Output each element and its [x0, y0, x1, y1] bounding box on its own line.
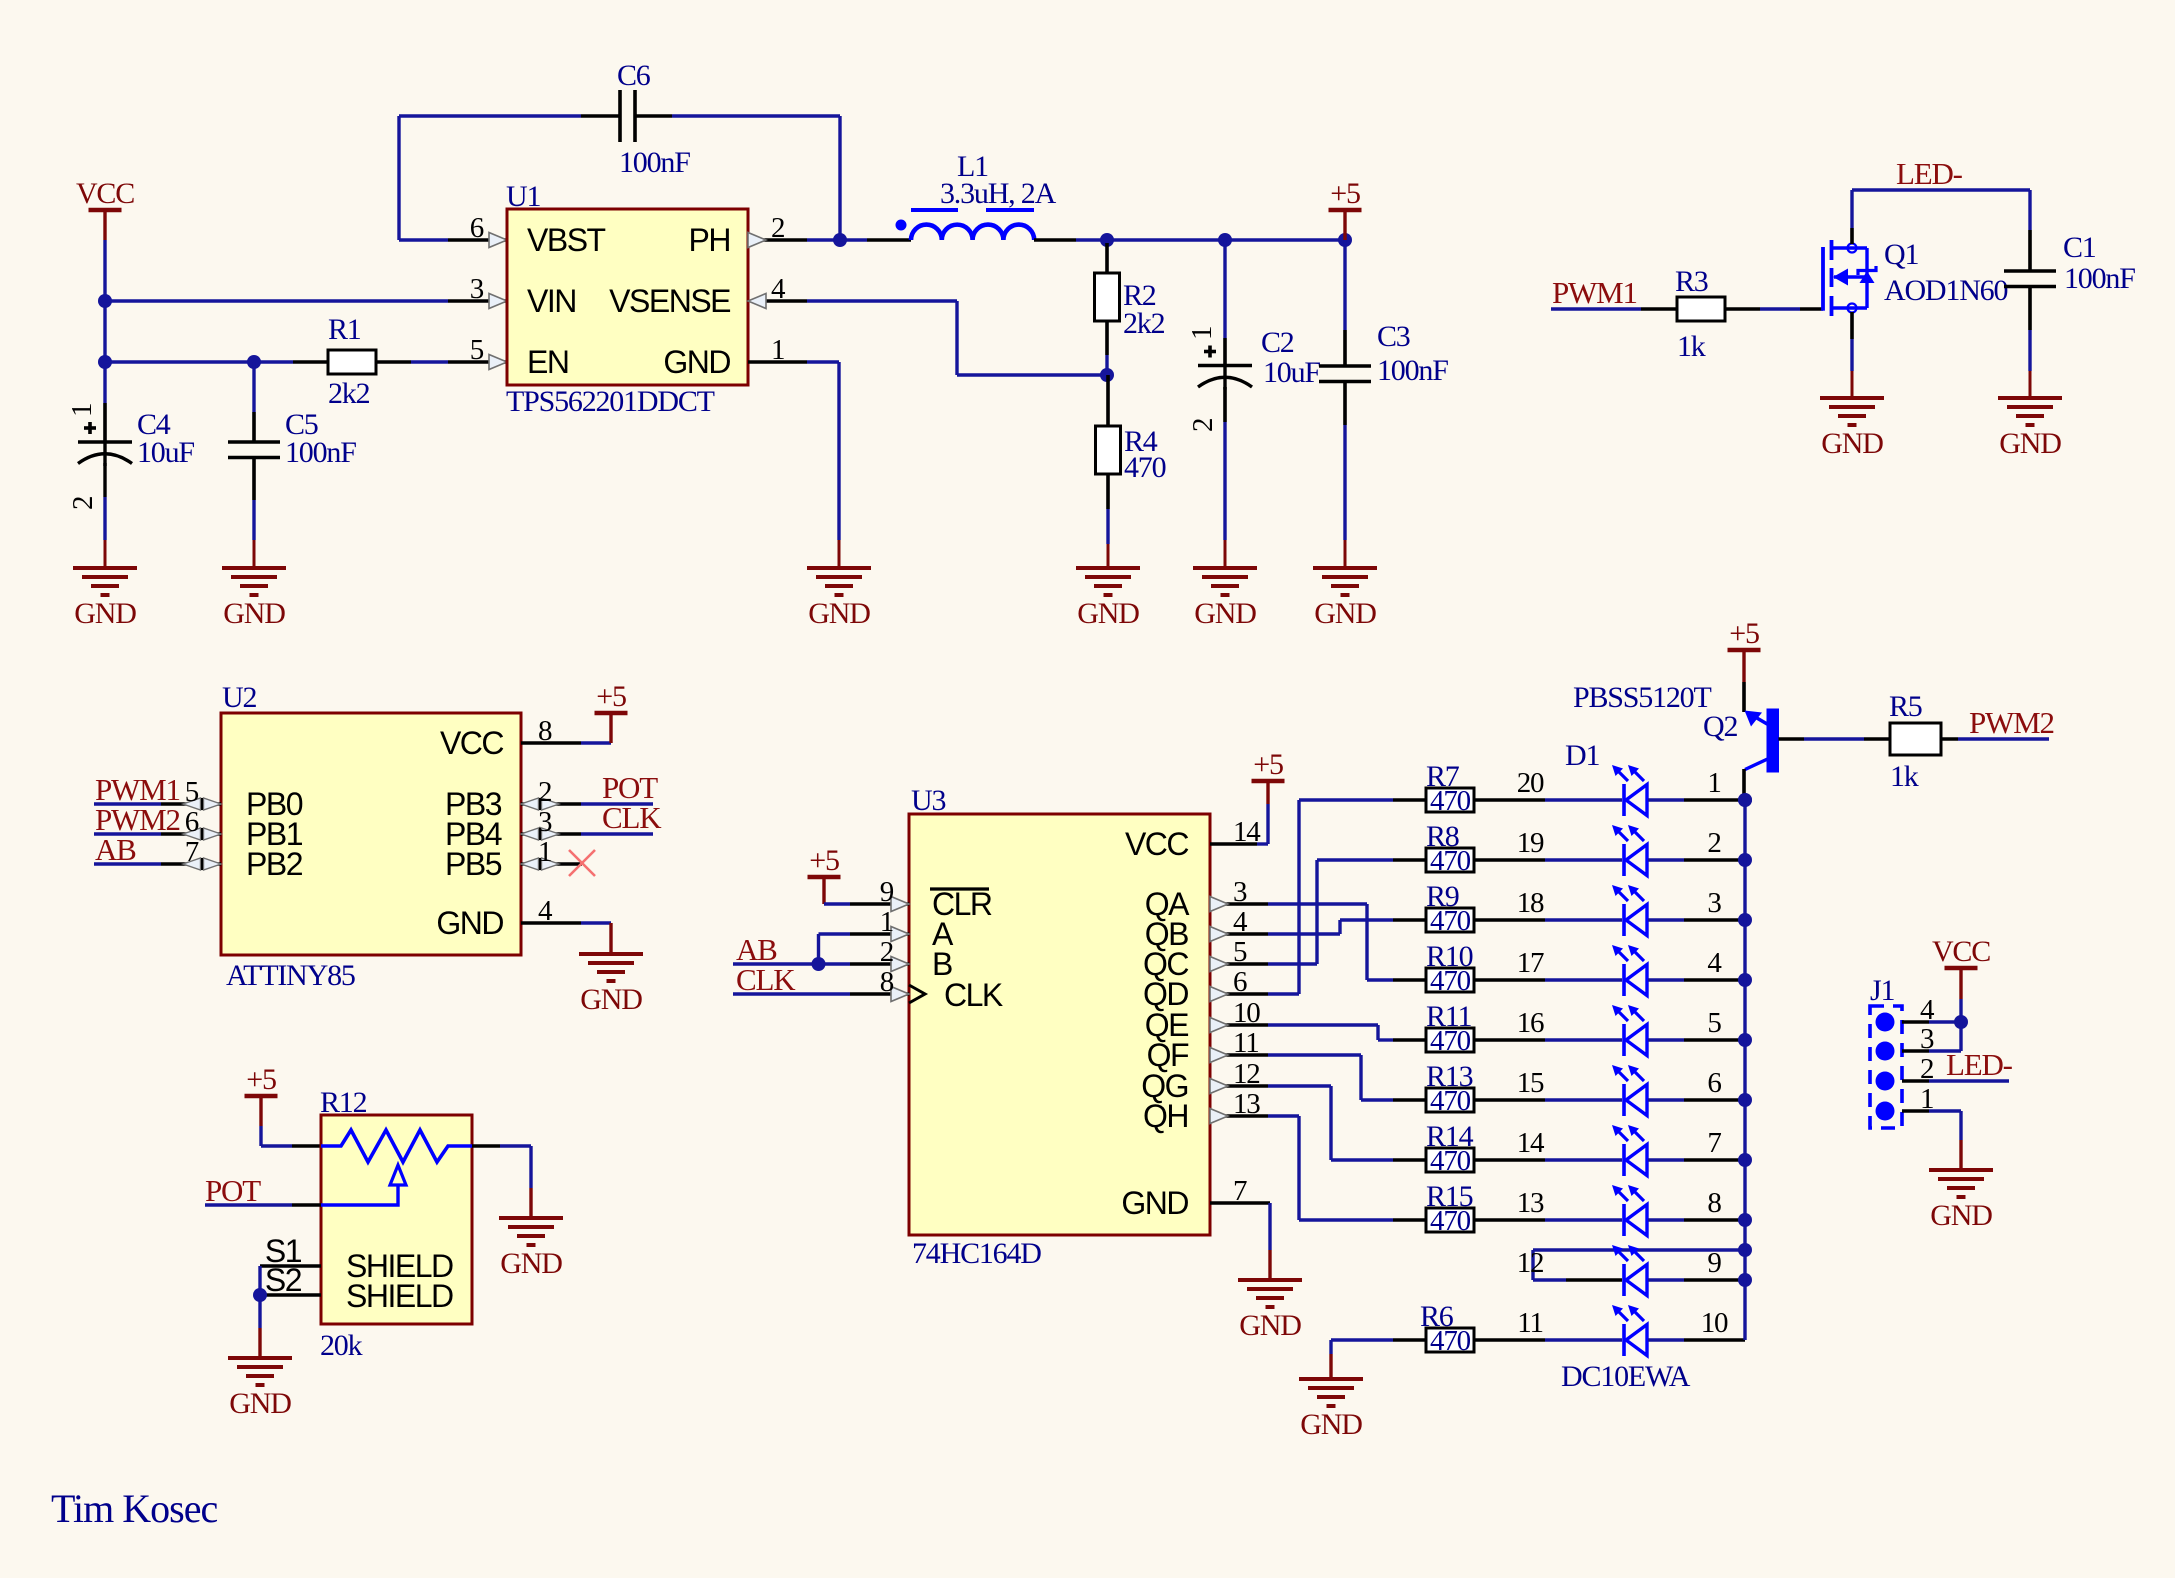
svg-text:18: 18: [1517, 887, 1544, 919]
svg-text:R9: R9: [1426, 880, 1459, 913]
svg-text:3: 3: [538, 806, 552, 838]
svg-text:3.3uH, 2A: 3.3uH, 2A: [940, 177, 1057, 210]
svg-text:Q1: Q1: [1884, 238, 1918, 271]
svg-text:8: 8: [538, 715, 552, 747]
svg-text:7: 7: [1233, 1175, 1247, 1207]
svg-text:GND: GND: [1300, 1408, 1362, 1441]
svg-text:J1: J1: [1870, 974, 1894, 1007]
svg-text:1: 1: [538, 836, 551, 868]
svg-text:VIN: VIN: [527, 283, 576, 319]
svg-text:DC10EWA: DC10EWA: [1561, 1360, 1691, 1393]
svg-text:POT: POT: [205, 1173, 261, 1208]
svg-text:PB2: PB2: [246, 846, 303, 882]
svg-text:20: 20: [1517, 767, 1544, 799]
svg-text:CLK: CLK: [944, 977, 1003, 1013]
svg-text:1: 1: [880, 906, 893, 938]
svg-text:+5: +5: [1330, 177, 1360, 210]
svg-text:100nF: 100nF: [1377, 354, 1448, 387]
svg-text:7: 7: [1707, 1127, 1721, 1159]
svg-text:8: 8: [1707, 1187, 1721, 1219]
svg-text:3: 3: [1707, 887, 1721, 919]
svg-text:VCC: VCC: [1932, 935, 1990, 968]
svg-text:U1: U1: [506, 180, 540, 213]
svg-text:R12: R12: [320, 1086, 367, 1119]
svg-text:14: 14: [1233, 816, 1261, 848]
svg-text:U2: U2: [222, 681, 256, 714]
svg-text:15: 15: [1517, 1067, 1544, 1099]
svg-text:SHIELD: SHIELD: [346, 1278, 453, 1314]
svg-text:R7: R7: [1426, 760, 1460, 793]
svg-text:6: 6: [185, 806, 199, 838]
svg-text:9: 9: [1707, 1247, 1721, 1279]
svg-text:+5: +5: [596, 680, 626, 713]
svg-text:R14: R14: [1426, 1120, 1474, 1153]
svg-text:4: 4: [538, 895, 553, 927]
svg-text:13: 13: [1517, 1187, 1544, 1219]
svg-text:5: 5: [470, 334, 484, 366]
svg-text:C3: C3: [1377, 320, 1410, 353]
svg-text:Tim Kosec: Tim Kosec: [51, 1486, 217, 1531]
svg-text:GND: GND: [1194, 597, 1256, 630]
svg-text:2: 2: [67, 497, 99, 510]
svg-text:10: 10: [1233, 997, 1260, 1029]
svg-text:1k: 1k: [1890, 760, 1919, 793]
svg-text:13: 13: [1233, 1088, 1260, 1120]
svg-text:PBSS5120T: PBSS5120T: [1573, 681, 1711, 714]
svg-text:C6: C6: [617, 59, 651, 92]
svg-text:100nF: 100nF: [619, 146, 690, 179]
svg-text:R1: R1: [328, 313, 361, 346]
svg-text:5: 5: [1233, 936, 1247, 968]
svg-text:6: 6: [1707, 1067, 1721, 1099]
svg-text:GND: GND: [1077, 597, 1139, 630]
svg-text:VCC: VCC: [76, 177, 134, 210]
svg-text:CLK: CLK: [602, 800, 662, 835]
svg-text:2: 2: [538, 776, 551, 808]
svg-text:GND: GND: [580, 983, 642, 1016]
svg-text:19: 19: [1517, 827, 1544, 859]
svg-text:2k2: 2k2: [328, 377, 370, 410]
svg-text:5: 5: [1707, 1007, 1721, 1039]
svg-text:R13: R13: [1426, 1060, 1473, 1093]
svg-text:CLK: CLK: [736, 962, 796, 997]
svg-text:6: 6: [1233, 966, 1247, 998]
svg-text:GND: GND: [229, 1387, 291, 1420]
svg-text:GND: GND: [808, 597, 870, 630]
svg-text:QH: QH: [1143, 1098, 1188, 1134]
svg-text:TPS562201DDCT: TPS562201DDCT: [506, 385, 715, 418]
svg-text:9: 9: [880, 876, 894, 908]
svg-text:12: 12: [1517, 1247, 1544, 1279]
svg-text:1: 1: [1707, 767, 1720, 799]
svg-text:4: 4: [1233, 906, 1248, 938]
svg-text:+5: +5: [1729, 617, 1759, 650]
svg-text:2: 2: [880, 936, 893, 968]
svg-text:20k: 20k: [320, 1329, 363, 1362]
svg-text:VBST: VBST: [527, 222, 606, 258]
svg-text:C2: C2: [1261, 326, 1294, 359]
svg-text:74HC164D: 74HC164D: [912, 1237, 1041, 1270]
svg-text:10uF: 10uF: [137, 436, 194, 469]
svg-text:AOD1N60: AOD1N60: [1884, 274, 2007, 307]
svg-text:2: 2: [1187, 419, 1219, 432]
svg-text:PB5: PB5: [445, 846, 502, 882]
svg-text:4: 4: [1707, 947, 1722, 979]
svg-text:D1: D1: [1565, 739, 1599, 772]
svg-text:+5: +5: [809, 844, 839, 877]
svg-text:R8: R8: [1426, 820, 1459, 853]
svg-text:5: 5: [185, 776, 199, 808]
svg-text:VCC: VCC: [1125, 826, 1188, 862]
svg-text:6: 6: [470, 212, 484, 244]
svg-text:GND: GND: [1239, 1309, 1301, 1342]
svg-text:GND: GND: [223, 597, 285, 630]
svg-text:1: 1: [66, 404, 98, 417]
svg-text:+5: +5: [246, 1063, 276, 1096]
svg-text:12: 12: [1233, 1058, 1260, 1090]
svg-text:1: 1: [1186, 327, 1218, 340]
svg-text:GND: GND: [500, 1247, 562, 1280]
svg-text:VCC: VCC: [440, 725, 503, 761]
svg-text:GND: GND: [1821, 427, 1883, 460]
svg-text:11: 11: [1517, 1307, 1543, 1339]
svg-text:R10: R10: [1426, 940, 1473, 973]
svg-text:Q2: Q2: [1703, 710, 1737, 743]
svg-text:GND: GND: [1999, 427, 2061, 460]
svg-text:17: 17: [1517, 947, 1544, 979]
svg-text:AB: AB: [95, 832, 136, 867]
svg-text:16: 16: [1517, 1007, 1544, 1039]
svg-text:GND: GND: [663, 344, 730, 380]
svg-text:8: 8: [880, 966, 894, 998]
svg-text:ATTINY85: ATTINY85: [226, 959, 355, 992]
svg-text:2k2: 2k2: [1123, 307, 1165, 340]
svg-text:R3: R3: [1675, 265, 1708, 298]
svg-text:7: 7: [185, 836, 199, 868]
svg-text:R15: R15: [1426, 1180, 1473, 1213]
svg-text:EN: EN: [527, 344, 568, 380]
svg-text:R5: R5: [1889, 690, 1922, 723]
svg-text:10: 10: [1701, 1307, 1728, 1339]
svg-text:14: 14: [1517, 1127, 1545, 1159]
svg-text:LED-: LED-: [1896, 156, 1963, 191]
svg-text:C1: C1: [2063, 231, 2096, 264]
svg-text:10uF: 10uF: [1263, 356, 1320, 389]
svg-text:GND: GND: [1314, 597, 1376, 630]
svg-text:GND: GND: [436, 905, 503, 941]
svg-text:GND: GND: [1121, 1185, 1188, 1221]
svg-text:470: 470: [1124, 451, 1166, 484]
svg-text:3: 3: [1233, 876, 1247, 908]
svg-text:PWM2: PWM2: [1969, 705, 2054, 740]
svg-text:VSENSE: VSENSE: [609, 283, 730, 319]
svg-text:+5: +5: [1253, 748, 1283, 781]
svg-text:100nF: 100nF: [2064, 262, 2135, 295]
svg-text:GND: GND: [74, 597, 136, 630]
svg-text:11: 11: [1233, 1027, 1259, 1059]
svg-text:3: 3: [470, 273, 484, 305]
svg-text:GND: GND: [1930, 1199, 1992, 1232]
svg-text:PWM1: PWM1: [1552, 275, 1637, 310]
svg-text:LED-: LED-: [1946, 1047, 2013, 1082]
svg-text:U3: U3: [911, 784, 945, 817]
svg-text:2: 2: [1707, 827, 1720, 859]
svg-text:PH: PH: [689, 222, 730, 258]
svg-text:R11: R11: [1426, 1000, 1471, 1033]
svg-text:R6: R6: [1420, 1300, 1454, 1333]
svg-text:100nF: 100nF: [285, 436, 356, 469]
svg-text:1k: 1k: [1677, 330, 1706, 363]
